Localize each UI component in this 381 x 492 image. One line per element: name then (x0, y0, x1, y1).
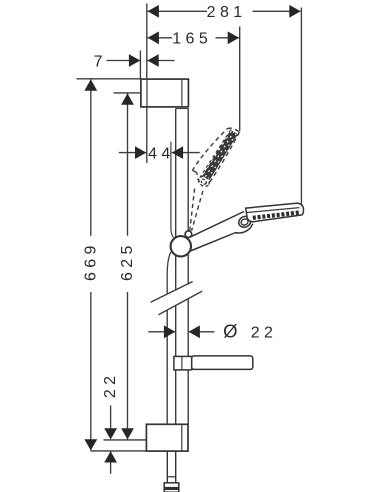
281 right extension line (300, 8, 302, 205)
dim line 281 (148, 10, 207, 12)
hand shower head inner line (247, 208, 300, 213)
rail right edge segments (187, 109, 189, 232)
svg-text:625: 625 (119, 241, 136, 281)
hose from slider down (167, 252, 171, 294)
phantom handle right dashed line (192, 191, 203, 231)
hand shower nozzle band (253, 213, 299, 218)
22 dim vertical line (110, 406, 112, 436)
arrow dia22 right (pointing left) (189, 325, 200, 338)
soap dish collar inner line (181, 356, 183, 370)
arrow 281 left (148, 5, 159, 18)
hose below bracket (166, 451, 168, 483)
reference line A (rail end) (104, 439, 147, 441)
arrow 7 right (pointing left) (147, 54, 158, 67)
wall extension line (146, 4, 148, 164)
soap dish collar on rail (174, 356, 192, 370)
svg-text:Ø 22: Ø 22 (223, 321, 277, 342)
svg-text:7: 7 (94, 53, 107, 70)
svg-text:44: 44 (148, 145, 175, 162)
bottom bracket body (146, 424, 188, 451)
break diagonal upper (151, 282, 193, 303)
hose nut (164, 483, 179, 492)
arrow 625 top (121, 93, 134, 104)
bottom bracket inner line (181, 424, 183, 451)
plate left extension line (for 7) (139, 51, 141, 80)
arrow 44 left (pointing right) (135, 146, 146, 159)
dim line 165 (148, 37, 172, 39)
arrow 22 bottom (pointing up) (104, 451, 117, 462)
phantom head right edge (208, 132, 240, 185)
phantom pivot curl inner (200, 178, 207, 185)
165 right extension line (239, 27, 241, 132)
669 dim vertical line (90, 79, 92, 235)
hand shower handle (189, 212, 253, 252)
phantom spray band speckles (203, 130, 236, 179)
slider release nub (185, 231, 192, 238)
arrow 22 top (pointing down) (104, 428, 117, 439)
625 top reference line (114, 92, 147, 94)
hose collar line (167, 476, 175, 478)
svg-text:22: 22 (102, 371, 119, 398)
625 dim vertical line (127, 93, 129, 235)
phantom handle left dashed line (190, 189, 195, 232)
svg-text:165: 165 (172, 31, 212, 48)
dim line diameter 22 (148, 331, 175, 333)
hand shower pivot ring (237, 214, 253, 229)
top bracket inner line (181, 79, 183, 107)
phantom head lower left edge (197, 173, 199, 183)
phantom head step (192, 170, 197, 173)
soap dish bar (192, 356, 253, 370)
slider body (171, 236, 191, 256)
top bracket wall plate line (146, 79, 148, 107)
phantom spray band fill (202, 130, 238, 180)
phantom pivot curl outer (197, 174, 212, 188)
arrow 165 left (148, 31, 159, 44)
rail left edge segments (175, 109, 177, 238)
dim line 44 (119, 152, 146, 154)
svg-text:281: 281 (207, 4, 247, 21)
arrow 669 bottom (84, 439, 97, 450)
solid line A left of rail (171, 142, 174, 238)
arrow 44 right (pointing left) (172, 146, 183, 159)
phantom head left edge (192, 128, 227, 170)
dim line 7 (107, 60, 141, 62)
phantom head inner dashed line (200, 129, 231, 177)
arrow 165 right (228, 31, 239, 44)
arrow 7 left (pointing right) (129, 54, 140, 67)
rail top edge under bracket (176, 108, 189, 110)
reference line B (rail bottom) (91, 450, 147, 452)
arrow 625 bottom (121, 428, 134, 439)
svg-text:669: 669 (82, 241, 99, 281)
arrow 669 top (84, 79, 97, 90)
phantom head top cap (228, 128, 240, 132)
top bracket body (141, 79, 189, 107)
arrow 281 right (289, 5, 300, 18)
hand shower head (246, 203, 304, 222)
669 top reference line (77, 78, 142, 80)
break diagonal lower (159, 291, 203, 315)
arrow dia22 left (pointing right) (164, 325, 175, 338)
